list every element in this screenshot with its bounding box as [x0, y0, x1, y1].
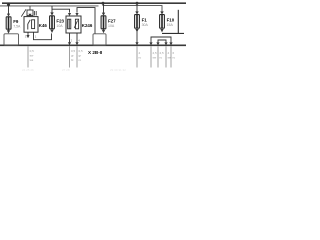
wire F23 bottom arrow: [50, 30, 53, 33]
wire second rail left: [0, 5, 99, 7]
svg-text:30A: 30A: [142, 23, 149, 27]
connector box under F9: [4, 34, 19, 46]
svg-text:sw: sw: [153, 56, 158, 60]
svg-text:24 25 26: 24 25 26: [22, 68, 34, 72]
svg-text:4: 4: [78, 39, 80, 43]
wire drop below bus at 158: [157, 46, 159, 67]
svg-text:10A: 10A: [56, 24, 63, 28]
wire drop below bus at 137: [136, 46, 138, 67]
wire riser right: [177, 10, 179, 34]
svg-text:ro: ro: [139, 56, 142, 60]
wire feed to F10: [103, 3, 162, 11]
wire spec text at 171: [173, 51, 176, 60]
switch lever E of K46: [21, 9, 26, 16]
wire F10 output run: [162, 32, 184, 34]
wire F27 bottom arrow: [102, 29, 105, 33]
svg-text:15A: 15A: [167, 23, 174, 27]
wire F9 top lead: [8, 3, 10, 14]
wire F9 bottom arrow: [7, 29, 10, 33]
wire drop below bus at 69: [69, 46, 71, 67]
svg-text:27 28: 27 28: [62, 68, 70, 72]
svg-text:0,5: 0,5: [79, 49, 84, 53]
svg-text:gr: gr: [71, 54, 74, 58]
fuse F27: [101, 16, 106, 29]
node junction at F9 feed: [7, 3, 10, 6]
svg-text:X 2B-II: X 2B-II: [88, 50, 102, 55]
svg-text:4: 4: [139, 51, 141, 55]
svg-text:1: 1: [35, 34, 37, 38]
wire drop below bus at 28: [27, 46, 29, 67]
wire spec text at 77: [79, 49, 84, 62]
svg-text:4: 4: [168, 51, 170, 55]
node junction at F27 feed: [102, 2, 105, 5]
wire arrow into F23: [50, 12, 53, 15]
svg-text:2,5: 2,5: [160, 51, 165, 55]
wire arrow into K246 pin right: [75, 13, 78, 16]
wire spec text at 151: [153, 51, 158, 60]
wire K46 left bottom lead: [26, 32, 29, 38]
svg-text:6: 6: [173, 51, 175, 55]
wire F1 bottom lead: [135, 29, 138, 45]
wire bracket F23 to K246: [52, 9, 70, 12]
svg-text:ro: ro: [173, 56, 176, 60]
wire drop below bus at 171: [170, 46, 172, 67]
wire bus lower: [0, 44, 186, 46]
coil box above K46: [27, 6, 33, 16]
connector box X on bus: [93, 34, 106, 46]
svg-text:ro: ro: [79, 58, 82, 62]
wire spec text at 158: [160, 51, 165, 60]
wire arrow into F1: [135, 11, 138, 14]
wire K246 bottom lead left: [68, 33, 71, 45]
wire bracket outer on lower bus: [149, 37, 172, 45]
wire drop below bus at 151: [150, 46, 152, 67]
wire arrow into K46 pin: [28, 14, 31, 17]
svg-text:10A: 10A: [108, 24, 115, 28]
svg-text:7,5A: 7,5A: [13, 24, 21, 28]
svg-text:K246: K246: [82, 23, 93, 28]
wire bracket inner on lower bus: [156, 40, 167, 45]
wire arrow into K246 pin left: [68, 13, 71, 16]
fuse F1: [135, 15, 140, 29]
wire K246 bottom lead right: [75, 33, 78, 45]
svg-text:bl: bl: [71, 58, 74, 62]
wire arrow into F10: [160, 11, 163, 14]
svg-text:gr: gr: [79, 54, 82, 58]
svg-text:ro: ro: [160, 56, 163, 60]
fuse F9: [6, 17, 11, 29]
wire F1 top lead: [136, 3, 138, 11]
fuse F23: [50, 16, 55, 29]
wire F10 bottom arrow: [160, 29, 163, 32]
svg-text:0,5: 0,5: [30, 49, 35, 53]
svg-text:ws: ws: [30, 58, 34, 62]
svg-text:0,5: 0,5: [71, 49, 76, 53]
relay K246: [66, 16, 81, 33]
wire spec text at 166: [168, 51, 173, 60]
wire arrow into F9: [7, 14, 10, 17]
svg-text:sw: sw: [30, 54, 34, 58]
relay K46: [24, 17, 38, 33]
contact marks above K46: [35, 11, 37, 16]
wire spec text at 28: [30, 49, 35, 62]
fuse F10: [160, 15, 165, 29]
wire K246 right lead routed: [77, 8, 95, 34]
wire F27 top lead: [103, 3, 105, 13]
node junction at F1 feed: [136, 2, 139, 5]
wire drop below bus at 77: [76, 46, 78, 67]
track numbers faint: [22, 68, 126, 72]
wire bus 30 top: [2, 2, 186, 4]
wire drop below bus at 166: [165, 46, 167, 67]
svg-text:2: 2: [71, 39, 73, 43]
wire arrow into F27: [102, 13, 105, 16]
wire spec text at 69: [71, 49, 76, 62]
svg-text:K46: K46: [39, 23, 48, 28]
wire K46 to F23 link: [34, 32, 52, 40]
svg-text:29 30 31 32: 29 30 31 32: [110, 68, 126, 72]
wire spec text at 137: [139, 51, 142, 60]
svg-text:2,5: 2,5: [153, 51, 158, 55]
wire F23 top lead: [51, 6, 53, 13]
